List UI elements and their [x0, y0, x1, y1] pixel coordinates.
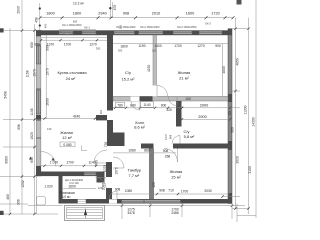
svg-text:2900: 2900 [200, 104, 208, 108]
door su5.8 [169, 97, 178, 106]
svg-text:1.030: 1.030 [50, 160, 58, 164]
tambour bottom interior dims [112, 182, 230, 198]
svg-text:1080: 1080 [125, 189, 133, 193]
svg-text:15 м²: 15 м² [171, 175, 181, 180]
left wall dark blocks [36, 30, 41, 36]
svg-text:1270: 1270 [89, 42, 97, 46]
svg-text:900: 900 [99, 109, 103, 114]
svg-text:2486: 2486 [171, 211, 179, 215]
svg-text:4850: 4850 [222, 66, 226, 74]
svg-text:8.6 м²: 8.6 м² [134, 125, 145, 130]
top chain numbers [44, 12, 220, 30]
svg-text:900: 900 [46, 45, 50, 51]
svg-text:9060: 9060 [5, 156, 9, 164]
door tambour from hall [113, 157, 124, 168]
svg-text:3150: 3150 [248, 166, 252, 174]
svg-text:Тамбур: Тамбур [128, 168, 142, 173]
svg-text:600: 600 [73, 20, 78, 24]
tick crossing lines [0, 30, 36, 32]
svg-text:600: 600 [30, 42, 34, 48]
hall bottom wall right run [173, 144, 228, 149]
kitchen wall mid (hall side) [107, 120, 113, 146]
window bottom wall long [122, 200, 181, 203]
svg-text:1700: 1700 [174, 44, 182, 48]
kitchen interior vertical chain [45, 35, 52, 131]
svg-text:12.2 м²: 12.2 м² [73, 1, 85, 5]
kitchen 4240 dim [73, 109, 103, 119]
svg-text:958: 958 [17, 199, 21, 205]
outer sill line kitchen windows [59, 29, 96, 31]
svg-text:120: 120 [98, 186, 103, 190]
axis leader at 39.8 with dots [39, 3, 41, 30]
svg-text:860: 860 [144, 148, 150, 152]
wall su15 right (light partition) [153, 35, 157, 97]
svg-text:1800: 1800 [46, 12, 54, 16]
svg-text:24 м²: 24 м² [66, 76, 76, 81]
level mark room12 [60, 142, 87, 151]
svg-text:14300: 14300 [251, 117, 255, 126]
svg-text:2030: 2030 [204, 189, 212, 193]
window left wall 2 [37, 90, 41, 114]
svg-text:300: 300 [118, 48, 123, 52]
small fixture bottom-left notch [37, 197, 46, 206]
svg-text:21 м²: 21 м² [179, 75, 189, 80]
svg-text:1920: 1920 [30, 132, 34, 140]
entry door gap bottom wall [109, 199, 117, 203]
prihozhaya door gap bottom wall [78, 199, 87, 203]
door zh21 gap [153, 86, 158, 97]
door su15 gap [131, 96, 140, 101]
svg-text:80: 80 [228, 111, 232, 115]
right wall [228, 29, 232, 204]
room12 interior dims [39, 160, 106, 167]
level triangle right [52, 158, 55, 161]
svg-text:1070: 1070 [115, 167, 119, 175]
window top wall kitchen a [59, 31, 74, 35]
svg-text:870: 870 [113, 5, 117, 11]
left wall window joint ticks [36, 44, 41, 46]
svg-text:1570: 1570 [33, 69, 37, 77]
door room12 from kitchen wall [94, 150, 107, 163]
window left wall 1 [37, 46, 41, 64]
svg-text:5458: 5458 [4, 91, 8, 99]
svg-text:3478: 3478 [127, 211, 135, 215]
svg-text:900: 900 [161, 104, 167, 108]
svg-text:908: 908 [163, 149, 169, 153]
svg-text:600: 600 [34, 42, 40, 46]
svg-text:1700: 1700 [66, 160, 74, 164]
window top wall su15 b [139, 31, 164, 34]
svg-text:1800: 1800 [73, 12, 81, 16]
left chain texts [4, 6, 53, 205]
svg-text:100: 100 [185, 97, 191, 101]
svg-text:130: 130 [96, 114, 100, 119]
svg-text:458: 458 [35, 17, 39, 23]
svg-text:ОК-2 1500х1500: ОК-2 1500х1500 [177, 25, 197, 29]
svg-text:0.080: 0.080 [63, 143, 71, 147]
svg-text:7,7 м²: 7,7 м² [128, 173, 139, 178]
svg-text:780: 780 [117, 104, 123, 108]
kitchen wall lower / tambour left [106, 162, 112, 199]
svg-text:710: 710 [168, 189, 174, 193]
svg-text:Жилая: Жилая [170, 169, 183, 174]
svg-text:12 м²: 12 м² [62, 135, 72, 140]
bottom wall [59, 199, 233, 204]
svg-text:Кухня-столовая: Кухня-столовая [57, 70, 86, 75]
svg-text:1700: 1700 [181, 190, 189, 194]
door prihozhaya-tambour gap [106, 177, 112, 188]
svg-text:2900: 2900 [198, 115, 206, 119]
svg-text:ОК-2 1500х1500: ОК-2 1500х1500 [116, 25, 136, 29]
svg-text:460: 460 [6, 194, 10, 200]
partition kitchen/room12 [41, 118, 96, 120]
window in room12 bottom wall [84, 172, 96, 175]
door su15 from hall [131, 101, 140, 110]
svg-text:11200: 11200 [244, 105, 248, 114]
svg-text:1600: 1600 [186, 12, 194, 16]
svg-text:1190: 1190 [138, 44, 145, 48]
entry door arc tambour [109, 191, 117, 199]
svg-text:908: 908 [159, 189, 165, 193]
svg-text:1275: 1275 [164, 134, 168, 140]
tambour top dim row [113, 148, 176, 158]
hallway left exterior wall [59, 176, 63, 204]
svg-text:6,0 м²: 6,0 м² [62, 195, 72, 199]
svg-text:4850: 4850 [235, 58, 239, 66]
svg-text:2940: 2940 [98, 12, 106, 16]
svg-text:730: 730 [104, 142, 108, 148]
axis end marker left bottom [0, 211, 4, 215]
svg-text:1080: 1080 [128, 148, 136, 152]
bottom-left wall (under room 12) [36, 172, 97, 177]
vertical dim zh21 right [222, 44, 224, 97]
svg-text:1270: 1270 [197, 44, 205, 48]
kitchen wall upper [107, 35, 113, 111]
window top wall zh21 b [199, 31, 222, 34]
svg-text:ОК-2 1500х1500: ОК-2 1500х1500 [140, 25, 160, 29]
dark chunk in partition [140, 96, 153, 101]
svg-text:1570: 1570 [46, 68, 50, 76]
svg-text:2600: 2600 [45, 98, 49, 106]
svg-text:1075: 1075 [103, 165, 107, 173]
pier right of prihozhaya [97, 172, 105, 183]
svg-text:4150: 4150 [147, 65, 151, 73]
door room12 bottom [41, 152, 56, 167]
door su58 leaf [172, 136, 180, 144]
door zh21 from hall [157, 86, 168, 97]
svg-text:1600: 1600 [68, 184, 76, 188]
window top wall su15 a [114, 31, 135, 34]
chain lines [9, 28, 11, 214]
tambour right wall [149, 149, 154, 200]
svg-text:ОК-3: ОК-3 [205, 22, 211, 26]
svg-text:1720: 1720 [211, 12, 219, 16]
horizontal partition under su15/zh21 [113, 96, 228, 101]
svg-text:5,8 м²: 5,8 м² [184, 134, 195, 139]
svg-text:1700: 1700 [64, 42, 72, 46]
svg-text:120: 120 [152, 182, 156, 188]
leader line with dot (axis 110) [109, 0, 111, 18]
prihozhaya dims [63, 165, 111, 191]
svg-text:1108: 1108 [30, 108, 34, 115]
axis marker top right [237, 0, 242, 5]
door zh15 from hall [164, 149, 178, 163]
top chain line [39, 16, 235, 19]
svg-text:320: 320 [166, 108, 172, 112]
su15/zh21 top interior row [113, 44, 228, 53]
right wall dark blocks [228, 29, 232, 36]
su5.8 left wall [176, 101, 182, 127]
svg-text:900: 900 [231, 127, 235, 133]
level triangle left [29, 157, 32, 160]
door prihozhaya-tambour [96, 178, 107, 189]
svg-text:400: 400 [44, 23, 48, 28]
svg-text:4240: 4240 [73, 114, 81, 118]
axis end marker left top [0, 28, 4, 32]
inner offset line below top wall kitchen [41, 36, 107, 38]
svg-text:ОК-1: ОК-1 [84, 26, 90, 30]
svg-text:2930: 2930 [17, 6, 21, 14]
partition block at kitchen wall [96, 115, 107, 120]
svg-text:268: 268 [165, 155, 171, 159]
svg-text:15.2 м²: 15.2 м² [122, 76, 136, 81]
svg-text:908: 908 [123, 12, 129, 16]
svg-text:906: 906 [17, 124, 21, 130]
top wall [36, 30, 232, 35]
svg-text:900: 900 [215, 44, 221, 48]
svg-text:ОК-1 1500х1500: ОК-1 1500х1500 [62, 23, 82, 27]
svg-text:1202: 1202 [21, 180, 25, 188]
svg-text:3030: 3030 [235, 156, 239, 164]
hall bottom wall left block [141, 144, 154, 149]
su58 dims [113, 97, 232, 120]
svg-text:130: 130 [47, 127, 52, 131]
vent shaft [112, 133, 125, 147]
svg-text:1800: 1800 [120, 44, 128, 48]
svg-text:120: 120 [152, 48, 157, 52]
svg-text:898: 898 [169, 134, 173, 139]
svg-text:1140: 1140 [143, 103, 150, 107]
left wall light body [36, 30, 41, 176]
svg-text:300: 300 [96, 47, 101, 51]
kitchen top interior row [34, 39, 107, 51]
svg-text:С/у: С/у [125, 70, 131, 75]
window top wall kitchen b [82, 31, 96, 34]
svg-text:1400: 1400 [154, 44, 162, 48]
svg-text:1158: 1158 [26, 70, 30, 77]
svg-text:1.020: 1.020 [44, 185, 52, 189]
hall dim row [116, 102, 172, 112]
window top wall zh21 a [173, 31, 192, 34]
svg-text:2010: 2010 [152, 12, 160, 16]
